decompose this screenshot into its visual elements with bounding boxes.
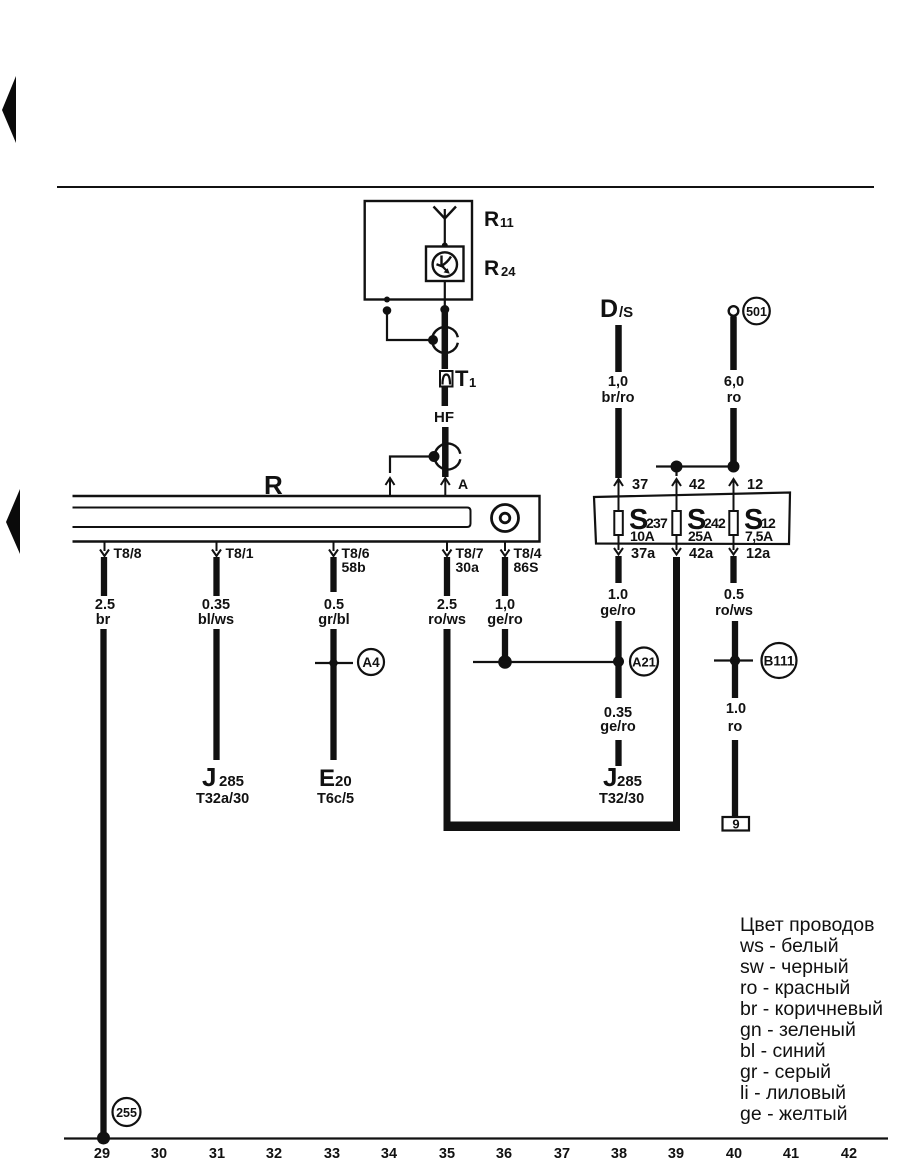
svg-text:T: T [455, 366, 469, 391]
svg-text:9: 9 [732, 817, 739, 832]
svg-text:38: 38 [611, 1146, 627, 1162]
svg-text:J: J [202, 762, 216, 792]
svg-text:29: 29 [94, 1146, 110, 1162]
svg-text:6,0: 6,0 [724, 374, 744, 390]
svg-text:gr/bl: gr/bl [318, 612, 349, 628]
svg-text:ge/ro: ge/ro [600, 603, 636, 619]
svg-text:501: 501 [746, 305, 767, 319]
svg-text:35: 35 [439, 1146, 455, 1162]
svg-text:sw - черный: sw - черный [740, 956, 849, 978]
svg-text:li - лиловый: li - лиловый [740, 1082, 846, 1104]
svg-text:ge/ro: ge/ro [487, 612, 523, 628]
svg-text:285: 285 [219, 773, 244, 790]
svg-text:ro/ws: ro/ws [715, 603, 753, 619]
svg-text:1,0: 1,0 [495, 597, 515, 613]
svg-text:40: 40 [726, 1146, 742, 1162]
svg-text:33: 33 [324, 1146, 340, 1162]
svg-text:42: 42 [689, 477, 705, 493]
svg-text:285: 285 [617, 773, 642, 790]
svg-text:ro - красный: ro - красный [740, 977, 850, 999]
svg-text:1: 1 [469, 375, 476, 390]
svg-text:7,5A: 7,5A [745, 528, 773, 544]
svg-text:ro: ro [728, 719, 743, 735]
svg-text:ge/ro: ge/ro [600, 719, 636, 735]
svg-text:31: 31 [209, 1146, 225, 1162]
svg-text:HF: HF [434, 409, 454, 426]
svg-text:12: 12 [747, 477, 763, 493]
svg-text:37: 37 [632, 477, 648, 493]
svg-text:0.5: 0.5 [324, 597, 344, 613]
svg-text:br - коричневый: br - коричневый [740, 998, 883, 1020]
svg-text:12a: 12a [746, 546, 771, 562]
svg-text:T32/30: T32/30 [599, 791, 644, 807]
svg-text:ro/ws: ro/ws [428, 612, 466, 628]
svg-text:D: D [600, 295, 618, 323]
svg-text:37: 37 [554, 1146, 570, 1162]
svg-text:T8/8: T8/8 [114, 545, 142, 561]
svg-text:255: 255 [116, 1106, 137, 1120]
svg-text:bl - синий: bl - синий [740, 1040, 826, 1062]
svg-text:R: R [484, 257, 499, 280]
svg-text:br/ro: br/ro [601, 390, 634, 406]
svg-text:gn - зеленый: gn - зеленый [740, 1019, 856, 1041]
svg-text:1.0: 1.0 [608, 587, 628, 603]
svg-text:42: 42 [841, 1146, 857, 1162]
svg-text:br: br [96, 612, 111, 628]
svg-text:T6c/5: T6c/5 [317, 791, 354, 807]
svg-text:0.5: 0.5 [724, 587, 744, 603]
svg-text:30: 30 [151, 1146, 167, 1162]
svg-text:42a: 42a [689, 546, 714, 562]
svg-text:37a: 37a [631, 546, 656, 562]
svg-text:1.0: 1.0 [726, 701, 746, 717]
svg-text:11: 11 [500, 215, 514, 230]
svg-text:A4: A4 [362, 655, 380, 670]
svg-text:0.35: 0.35 [202, 597, 230, 613]
svg-text:10A: 10A [630, 528, 655, 544]
svg-text:1,0: 1,0 [608, 374, 628, 390]
svg-text:T32a/30: T32a/30 [196, 791, 249, 807]
svg-text:bl/ws: bl/ws [198, 612, 234, 628]
svg-text:R: R [484, 208, 499, 231]
svg-text:gr - серый: gr - серый [740, 1061, 831, 1083]
svg-text:32: 32 [266, 1146, 282, 1162]
svg-text:/S: /S [619, 304, 633, 321]
svg-text:39: 39 [668, 1146, 684, 1162]
svg-text:34: 34 [381, 1146, 397, 1162]
svg-text:86S: 86S [514, 559, 539, 575]
svg-text:24: 24 [501, 264, 516, 279]
svg-text:ro: ro [727, 390, 742, 406]
svg-text:ws - белый: ws - белый [739, 935, 839, 957]
svg-text:Цвет проводов: Цвет проводов [740, 914, 875, 936]
svg-text:30a: 30a [456, 559, 480, 575]
svg-text:A: A [458, 476, 468, 492]
svg-text:36: 36 [496, 1146, 512, 1162]
svg-text:2.5: 2.5 [437, 597, 457, 613]
svg-text:A21: A21 [632, 655, 656, 670]
svg-text:T8/1: T8/1 [226, 545, 254, 561]
svg-text:E: E [319, 765, 335, 792]
svg-text:41: 41 [783, 1146, 799, 1162]
svg-text:2.5: 2.5 [95, 597, 115, 613]
svg-text:ge - желтый: ge - желтый [740, 1103, 847, 1125]
svg-text:J: J [603, 762, 617, 792]
svg-text:B111: B111 [764, 654, 795, 669]
svg-text:20: 20 [335, 773, 352, 790]
svg-text:58b: 58b [342, 559, 366, 575]
svg-text:25A: 25A [688, 528, 713, 544]
